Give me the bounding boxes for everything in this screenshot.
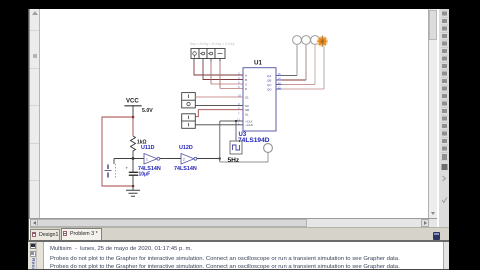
svg-text:74LS14N: 74LS14N: [138, 166, 161, 172]
svg-text:U11D: U11D: [141, 145, 155, 151]
svg-text:A: A: [245, 73, 247, 77]
svg-text:1: 1: [146, 158, 148, 162]
svg-text:10μF: 10μF: [139, 172, 151, 178]
svg-text:2: 2: [183, 158, 185, 162]
svg-text:U1: U1: [254, 60, 262, 67]
svg-text:~CLR: ~CLR: [245, 123, 254, 127]
svg-text:QB: QB: [267, 78, 271, 82]
svg-text:QA: QA: [267, 74, 271, 78]
svg-text:Key = A Key = B Key = C Key: Key = A Key = B Key = C Key: [190, 42, 235, 46]
svg-text:5Hz: 5Hz: [228, 157, 240, 164]
svg-text:10: 10: [238, 94, 242, 98]
svg-text:7: 7: [238, 111, 240, 115]
svg-text:5.0V: 5.0V: [142, 108, 153, 114]
svg-text:VCC: VCC: [126, 99, 139, 105]
svg-text:74LS14N: 74LS14N: [174, 166, 197, 172]
svg-text:+: +: [126, 166, 129, 171]
svg-text:74LS194D: 74LS194D: [238, 137, 270, 144]
svg-text:B: B: [245, 78, 247, 82]
svg-text:S1: S1: [245, 95, 249, 99]
svg-text:U12D: U12D: [179, 145, 193, 151]
svg-text:SL: SL: [245, 112, 249, 116]
